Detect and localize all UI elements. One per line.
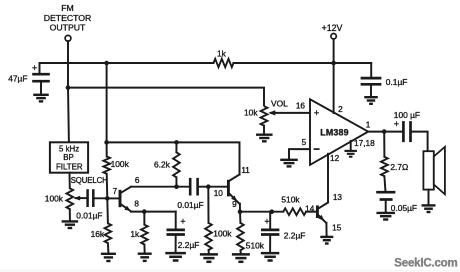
wire 2.2uF to ground bbox=[175, 235, 177, 253]
transistor Q1 base bar bbox=[119, 190, 122, 207]
svg-text:+: + bbox=[264, 217, 269, 227]
ground at pin 5 bbox=[280, 159, 298, 161]
svg-text:100k: 100k bbox=[213, 229, 232, 239]
node rail/6.2k junction bbox=[174, 140, 179, 145]
wire squelch wiper bbox=[76, 197, 88, 199]
wire 16k to ground bbox=[107, 243, 110, 253]
transistor Q3 emitter bbox=[318, 215, 326, 223]
wire Q2 emitter line bbox=[240, 211, 283, 213]
squelch wiper arrow bbox=[74, 196, 81, 201]
transistor Q2 emitter bbox=[229, 193, 240, 204]
capacitor C7 2.2uF top stub bbox=[269, 212, 271, 230]
node A (input node, x=68 y=87.6) bbox=[66, 85, 71, 90]
svg-text:+: + bbox=[180, 217, 185, 227]
wire input node to VOL pot bbox=[68, 88, 264, 107]
wire 510k to ground bbox=[239, 250, 242, 254]
svg-text:17,18: 17,18 bbox=[354, 138, 375, 148]
potentiometer VOL 10k element bbox=[261, 106, 268, 125]
pin 1 output wire bbox=[368, 131, 403, 133]
ground under VOL pot bbox=[256, 133, 273, 135]
svg-text:5: 5 bbox=[302, 138, 307, 147]
ground under 510k bbox=[232, 253, 250, 256]
wire 6.2k to collector line bbox=[175, 177, 177, 186]
svg-text:0.01µF: 0.01µF bbox=[76, 210, 102, 220]
svg-text:DETECTOR: DETECTOR bbox=[44, 13, 92, 23]
ground under 2.2uF bbox=[165, 252, 186, 255]
resistor R6 16k bbox=[105, 223, 112, 243]
transistor Q3 emitter arrow bbox=[318, 215, 324, 221]
svg-text:BP: BP bbox=[63, 153, 74, 162]
svg-text:100k: 100k bbox=[111, 159, 130, 169]
svg-text:VOL: VOL bbox=[271, 99, 288, 109]
op-amp inverting - mark bbox=[314, 148, 320, 150]
node rail/100k junction bbox=[104, 140, 109, 145]
scan artifact bottom edge bbox=[0, 270, 460, 271]
node supply/1k junction bbox=[104, 61, 109, 66]
wire output node down to 2.7ohm bbox=[383, 132, 385, 157]
potentiometer R10 100k element bbox=[67, 188, 74, 209]
wire VOL wiper to pin 16 bbox=[271, 112, 310, 114]
capacitor C5 0.01uF plates bbox=[189, 178, 192, 196]
transistor Q1 emitter bbox=[120, 204, 130, 211]
ground under speaker bbox=[422, 204, 436, 206]
resistor R5 100k bbox=[205, 223, 212, 250]
svg-text:9: 9 bbox=[232, 200, 237, 209]
wire Q2 emitter down bbox=[239, 204, 241, 212]
node emitter/1k junction bbox=[142, 209, 147, 214]
wire 0.05uF to ground bbox=[385, 200, 387, 213]
resistor R1 1k bbox=[214, 59, 234, 67]
wire 0.01uF to squelch node bbox=[93, 197, 107, 199]
capacitor C2 0.1uF plates bbox=[361, 77, 382, 80]
wire FM terminal down to node A bbox=[67, 41, 69, 87]
ground under 100k bbox=[200, 253, 218, 256]
wire supply rail left segment (47uF to 1k) bbox=[40, 62, 214, 64]
wire node down to 510k bbox=[239, 212, 241, 223]
svg-text:+12V: +12V bbox=[322, 23, 343, 33]
ground under 47uF bbox=[33, 94, 49, 96]
pin 2 wire (V+) bbox=[333, 63, 335, 113]
svg-text:10: 10 bbox=[214, 189, 224, 198]
svg-text:1k: 1k bbox=[217, 48, 227, 58]
resistor R2 2.7ohm bbox=[381, 157, 388, 176]
svg-text:SeekIC.com: SeekIC.com bbox=[394, 257, 457, 269]
svg-text:+: + bbox=[32, 63, 37, 73]
svg-text:SQUELCH: SQUELCH bbox=[71, 176, 108, 185]
terminal +12V bbox=[331, 34, 336, 39]
svg-text:10k: 10k bbox=[244, 108, 258, 118]
svg-text:16: 16 bbox=[296, 102, 306, 111]
wire 47uF to ground bbox=[40, 81, 42, 94]
svg-text:+: + bbox=[314, 108, 319, 118]
svg-text:14: 14 bbox=[305, 204, 315, 213]
pin 17,18 ground stub bbox=[350, 141, 352, 151]
transistor Q3 base bar bbox=[316, 205, 319, 218]
capacitor C7 2.2uF plates bbox=[261, 229, 279, 232]
ground under Q3 emitter bbox=[320, 236, 333, 238]
wire VOL pot to ground bbox=[263, 126, 265, 135]
capacitor C6 2.2uF top stub bbox=[175, 212, 177, 230]
svg-text:7: 7 bbox=[113, 187, 118, 196]
svg-text:6.2k: 6.2k bbox=[154, 160, 171, 170]
wire squelch pot to ground bbox=[69, 209, 71, 221]
svg-text:2: 2 bbox=[338, 105, 343, 114]
node base line junction bbox=[206, 184, 211, 189]
wire squelch node to Q1 base bbox=[107, 197, 119, 199]
ground under 16k bbox=[101, 253, 116, 255]
svg-text:100 µF: 100 µF bbox=[394, 110, 420, 120]
svg-text:0.01µF: 0.01µF bbox=[177, 200, 203, 210]
resistor R9 510k feedback bbox=[283, 208, 306, 215]
node +12V junction bbox=[331, 61, 336, 66]
transistor Q2 collector wire bbox=[239, 174, 241, 176]
svg-text:510k: 510k bbox=[281, 195, 300, 205]
wire collector supply rail bbox=[107, 142, 240, 174]
resistor R8 510k bbox=[237, 223, 244, 250]
ground under 0.1uF bbox=[364, 96, 378, 98]
capacitor C1 47uF top stub bbox=[39, 63, 41, 74]
speaker LS1 frame bbox=[423, 151, 433, 189]
svg-text:OUTPUT: OUTPUT bbox=[50, 23, 86, 33]
wire node down to 100k bbox=[207, 187, 209, 223]
ground under right 2.2uF bbox=[261, 252, 280, 255]
capacitor C4 0.05uF plates bbox=[376, 191, 395, 194]
capacitor C2 0.1uF top stub bbox=[370, 63, 372, 78]
capacitor C1 47uF plates bbox=[32, 73, 50, 76]
ground at pins 17,18 bbox=[344, 150, 357, 152]
wire Q3 emitter to ground bbox=[325, 223, 327, 237]
svg-text:8: 8 bbox=[134, 200, 139, 209]
node output junction bbox=[382, 129, 387, 134]
wire node down to 1k bbox=[143, 212, 145, 225]
svg-text:0.05µF: 0.05µF bbox=[391, 203, 417, 213]
svg-text:1: 1 bbox=[366, 120, 371, 129]
transistor Q1 collector bbox=[120, 187, 131, 194]
svg-text:100k: 100k bbox=[45, 193, 64, 203]
ground under 0.05uF bbox=[376, 212, 395, 214]
wire 2.2uF right to ground bbox=[269, 235, 271, 253]
node 2.2uF/510k junction bbox=[270, 209, 275, 214]
svg-text:1k: 1k bbox=[130, 229, 140, 239]
svg-text:FILTER: FILTER bbox=[56, 162, 83, 171]
resistor R4 6.2k bbox=[173, 152, 180, 177]
svg-text:47µF: 47µF bbox=[8, 74, 27, 84]
svg-text:2.2µF: 2.2µF bbox=[284, 230, 306, 240]
wire 100uF to speaker bbox=[411, 132, 428, 152]
VOL wiper arrow bbox=[268, 110, 275, 115]
node Q2 emitter junction bbox=[238, 209, 243, 214]
wire 0.01uF to Q2 base bbox=[198, 186, 228, 188]
wire BP filter to squelch pot bbox=[69, 173, 71, 189]
wire input node down to BP filter bbox=[67, 88, 70, 143]
wire 510k to Q3 base bbox=[306, 211, 316, 213]
wire 0.1uF to ground bbox=[370, 84, 372, 96]
svg-text:LM389: LM389 bbox=[320, 127, 348, 137]
ground under squelch pot bbox=[62, 220, 79, 222]
wire supply rail right segment (1k to +12V node) bbox=[234, 62, 372, 64]
block 5kHz BP filter box bbox=[50, 142, 88, 172]
wire 100k to squelch node bbox=[106, 174, 109, 199]
wire +12V terminal down bbox=[333, 39, 335, 63]
svg-text:12: 12 bbox=[330, 154, 340, 163]
wire 2.7ohm to 0.05uF bbox=[384, 176, 385, 192]
ground under 1k bbox=[138, 252, 152, 254]
transistor Q3 collector bbox=[318, 203, 328, 209]
capacitor C8 0.01uF plates bbox=[86, 189, 89, 207]
wire rail to 100k bbox=[106, 142, 108, 156]
resistor R7 1k bbox=[141, 225, 148, 245]
svg-text:16k: 16k bbox=[91, 229, 105, 239]
wire Q1 emitter line bbox=[131, 211, 176, 213]
svg-text:0.1µF: 0.1µF bbox=[386, 77, 408, 87]
wire squelch node to 16k bbox=[106, 198, 109, 223]
svg-text:15: 15 bbox=[332, 224, 342, 233]
wire speaker to ground bbox=[428, 190, 430, 205]
node 6.2k/collector junction bbox=[174, 184, 179, 189]
capacitor C6 2.2uF plates bbox=[167, 229, 185, 232]
transistor Q2 base bar bbox=[227, 180, 230, 197]
svg-text:+: + bbox=[394, 119, 399, 129]
op-amp U1 LM389 body bbox=[310, 99, 368, 165]
wire supply feed down x=106.6 bbox=[106, 63, 108, 142]
transistor Q1 emitter arrow bbox=[124, 206, 131, 212]
capacitor C3 100uF plates bbox=[402, 121, 405, 142]
wire rail to 6.2k bbox=[175, 142, 177, 152]
pin 12/13 wire from op-amp bbox=[327, 154, 329, 203]
transistor Q2 emitter arrow bbox=[231, 195, 237, 201]
wire Q1 collector line bbox=[131, 186, 190, 188]
speaker LS1 cone bbox=[434, 147, 445, 195]
terminal FM input bbox=[65, 35, 71, 41]
resistor R3 100k bbox=[103, 157, 110, 174]
svg-text:11: 11 bbox=[241, 166, 250, 175]
svg-text:2.7Ω: 2.7Ω bbox=[390, 162, 408, 172]
svg-text:13: 13 bbox=[333, 193, 343, 202]
wire 1k to ground bbox=[143, 245, 145, 254]
svg-text:FM: FM bbox=[61, 3, 74, 13]
node squelch junction bbox=[105, 196, 110, 201]
svg-text:510k: 510k bbox=[246, 240, 265, 250]
pin 5 wire (inverting input) bbox=[289, 149, 310, 159]
wire 100k to ground bbox=[208, 250, 210, 254]
svg-text:2.2µF: 2.2µF bbox=[178, 240, 200, 250]
svg-text:6: 6 bbox=[135, 176, 140, 185]
